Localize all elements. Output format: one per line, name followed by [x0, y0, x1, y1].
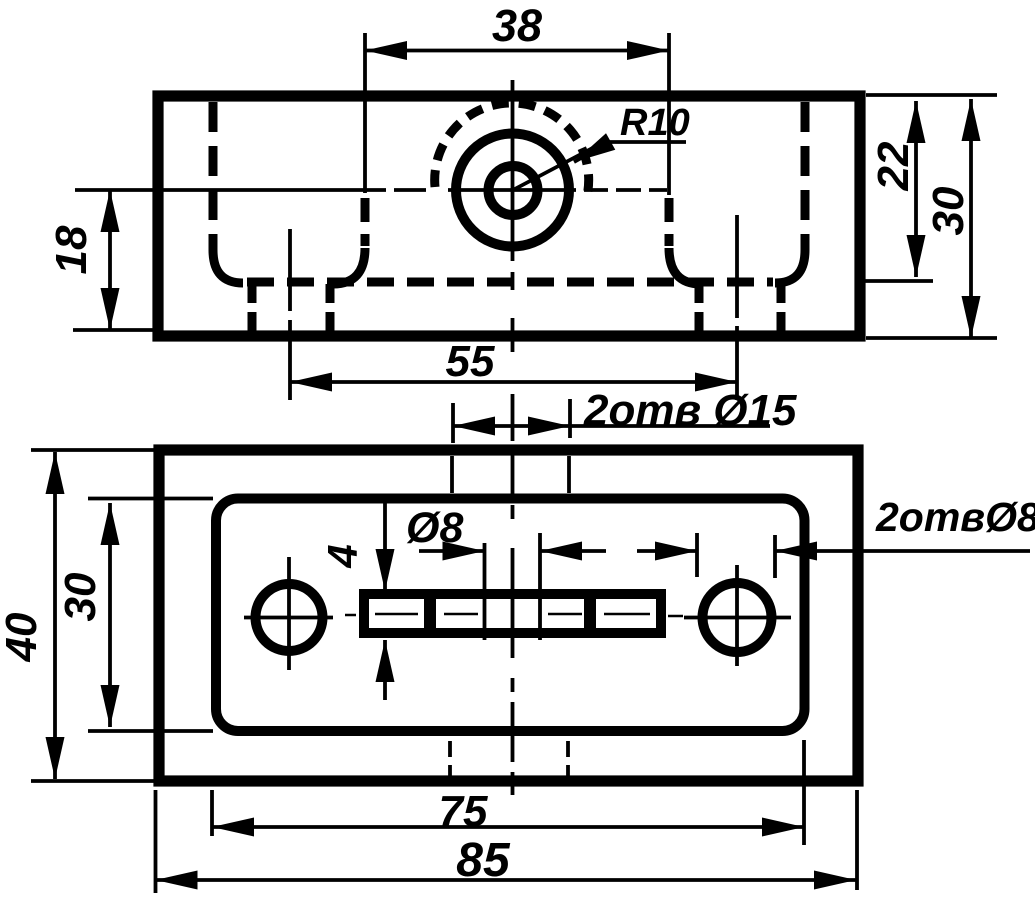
- svg-text:R10: R10: [620, 102, 690, 144]
- dimension F8 slot: [419, 549, 485, 553]
- plan view pocket outline: [216, 499, 805, 732]
- dimension 55: [290, 380, 737, 384]
- svg-text:38: 38: [492, 0, 542, 51]
- hole right F8: [703, 583, 772, 652]
- horizontal centre line of hole: [75, 188, 386, 192]
- dimension 85: [156, 878, 857, 882]
- hidden cavity top line: [247, 278, 773, 287]
- hidden notch lines right: [695, 284, 704, 331]
- svg-text:85: 85: [456, 834, 511, 887]
- dimension 75: [212, 825, 804, 829]
- hole circle outer F15: [456, 134, 569, 247]
- svg-text:18: 18: [47, 225, 96, 274]
- dimension 30 left: [108, 503, 112, 727]
- dimension 2otv F15: [453, 424, 570, 428]
- slot divider left: [424, 590, 436, 637]
- front view outer outline: [158, 96, 860, 336]
- hole circle inner: [489, 166, 538, 215]
- dimension 4: [383, 500, 387, 591]
- vertical centre line (main axis): [511, 80, 515, 261]
- svg-text:4: 4: [319, 544, 366, 568]
- svg-text:30: 30: [924, 186, 973, 235]
- svg-text:75: 75: [439, 787, 488, 836]
- extension lines F8 slot: [483, 543, 487, 640]
- dimension 30 right: [969, 99, 973, 338]
- hidden notch lines left: [248, 284, 257, 331]
- svg-text:Ø8: Ø8: [406, 504, 463, 552]
- extension lines right: [866, 93, 997, 97]
- plan view outer outline: [159, 450, 858, 781]
- slot divider right: [584, 590, 596, 637]
- slot centre line: [345, 614, 683, 616]
- hole left F8: [256, 584, 323, 651]
- hidden cavity left wall: [209, 102, 218, 250]
- svg-text:2отвØ8: 2отвØ8: [875, 494, 1035, 540]
- boss dashed arc R10: [435, 103, 589, 196]
- hidden step left wall: [361, 198, 370, 246]
- hidden cavity right wall: [801, 102, 810, 250]
- svg-text:2отв Ø15: 2отв Ø15: [583, 386, 797, 435]
- dimension 2otvF8: [637, 549, 697, 553]
- projection lines F15 holes: [450, 456, 454, 493]
- svg-text:55: 55: [446, 337, 495, 386]
- dimension 40: [53, 452, 57, 779]
- svg-text:30: 30: [56, 572, 105, 621]
- dimension 18: [108, 190, 112, 330]
- svg-text:22: 22: [869, 141, 918, 191]
- svg-text:40: 40: [0, 612, 46, 662]
- leader R10: [513, 142, 686, 190]
- hidden step right wall: [665, 198, 674, 246]
- dimension 38: [365, 49, 669, 53]
- slot outline: [364, 594, 661, 633]
- dimension 22: [914, 101, 918, 277]
